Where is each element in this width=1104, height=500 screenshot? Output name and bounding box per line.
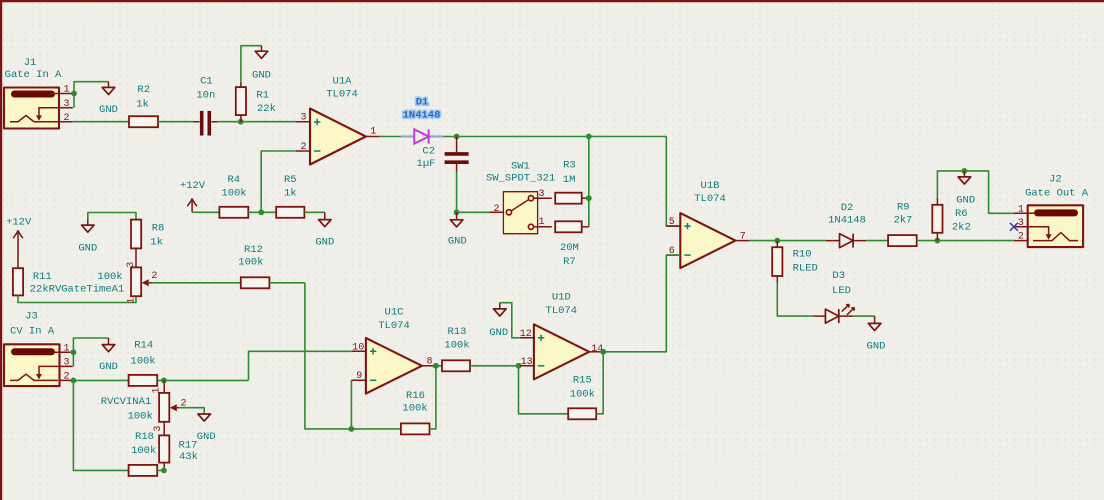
connector J3 CV In A bbox=[4, 311, 73, 386]
resistor R17 43k bbox=[159, 435, 198, 470]
svg-text:+12V: +12V bbox=[180, 180, 206, 192]
svg-text:R12: R12 bbox=[244, 244, 263, 256]
svg-text:8: 8 bbox=[426, 356, 432, 367]
svg-text:2: 2 bbox=[63, 372, 69, 383]
potentiometer RVCVINA1 100k bbox=[101, 380, 187, 435]
svg-text:LED: LED bbox=[832, 285, 851, 297]
svg-text:GND: GND bbox=[252, 69, 271, 81]
svg-text:GND: GND bbox=[867, 340, 886, 352]
svg-text:22kRVGateTimeA1: 22kRVGateTimeA1 bbox=[30, 284, 125, 296]
junction C2/GND/SW node bbox=[454, 209, 460, 215]
junction U1B out / R10 bbox=[774, 238, 780, 244]
svg-text:Gate In A: Gate In A bbox=[5, 69, 62, 81]
svg-text:1: 1 bbox=[1018, 204, 1024, 215]
wire U1B out to D2 bbox=[749, 240, 826, 242]
ground symbol at R6 bbox=[956, 171, 975, 207]
svg-text:R8: R8 bbox=[152, 223, 165, 235]
svg-text:GND: GND bbox=[197, 431, 216, 443]
svg-text:GND: GND bbox=[956, 194, 975, 206]
resistor R13 100k bbox=[442, 326, 470, 371]
wire R16 up to U1C out bbox=[430, 366, 436, 429]
wire R4 to R5 bbox=[248, 211, 276, 213]
svg-text:RVCVINA1: RVCVINA1 bbox=[101, 396, 151, 408]
svg-text:1: 1 bbox=[538, 217, 544, 228]
wire R6 top to GND and J2 pin1 bbox=[937, 171, 1014, 213]
svg-text:1k: 1k bbox=[136, 98, 149, 110]
resistor R10 RLED bbox=[772, 241, 818, 283]
junction pin9/R16 row bbox=[349, 426, 355, 432]
wire U1D feedback R15 bbox=[519, 366, 569, 414]
svg-text:1N4148: 1N4148 bbox=[828, 215, 866, 227]
svg-text:GND: GND bbox=[99, 104, 118, 116]
svg-text:R6: R6 bbox=[955, 208, 968, 220]
svg-text:3: 3 bbox=[126, 262, 137, 268]
svg-text:2k7: 2k7 bbox=[893, 215, 912, 227]
junction U1C out / R16 bbox=[433, 363, 439, 369]
svg-text:43k: 43k bbox=[179, 451, 198, 463]
op-amp U1D TL074 bbox=[520, 292, 603, 380]
resistor R9 2k7 bbox=[888, 202, 917, 246]
ground symbol at D3 bbox=[867, 316, 886, 352]
svg-text:D3: D3 bbox=[832, 270, 845, 282]
ground symbol at J1 bbox=[99, 82, 118, 116]
svg-text:100k: 100k bbox=[128, 410, 153, 422]
wire C1 to U1A pin3 bbox=[218, 121, 296, 123]
svg-text:22k: 22k bbox=[257, 103, 276, 115]
svg-text:1M: 1M bbox=[563, 174, 576, 186]
no-connect X on J2 pin3 bbox=[1010, 223, 1018, 231]
junction R3 riser top bbox=[586, 134, 592, 140]
svg-text:R18: R18 bbox=[135, 431, 154, 443]
svg-text:C1: C1 bbox=[200, 75, 213, 87]
svg-text:SW1: SW1 bbox=[511, 161, 530, 173]
sheet border left bbox=[0, 0, 2, 500]
wire R10 to D3 bbox=[777, 283, 814, 316]
svg-text:1µF: 1µF bbox=[417, 158, 436, 170]
resistor R5 1k bbox=[276, 174, 304, 218]
wire J1 pin2 to R2 bbox=[73, 121, 129, 123]
svg-text:R2: R2 bbox=[137, 84, 150, 96]
wire U1A pin2 from R4/R5 node bbox=[261, 151, 296, 212]
svg-text:TL074: TL074 bbox=[694, 193, 726, 205]
wire R5 to GND bbox=[304, 211, 324, 213]
wire R9 to J2 pin2 bbox=[917, 240, 1014, 242]
wire J3 pin2 to R14 bbox=[73, 379, 129, 381]
diode D1 1N4148 (selected) bbox=[401, 97, 443, 144]
svg-text:1: 1 bbox=[63, 85, 69, 96]
potentiometer RVGateTimeA1 100k bbox=[97, 262, 157, 304]
svg-text:100k: 100k bbox=[570, 389, 595, 401]
svg-text:R7: R7 bbox=[563, 256, 576, 268]
junction R3/R7 node bbox=[586, 195, 592, 201]
ground symbol at U1D pin12 bbox=[489, 303, 520, 339]
sheet border top bbox=[0, 0, 1104, 2]
junction C1/R1 node bbox=[238, 119, 244, 125]
ground symbol right of R5 bbox=[315, 212, 334, 248]
svg-text:R13: R13 bbox=[448, 326, 467, 338]
junction R14/pot node bbox=[161, 378, 167, 384]
resistor R14 100k bbox=[129, 340, 158, 386]
ground symbol left of R8 bbox=[78, 213, 136, 255]
power +12V at R4 bbox=[180, 180, 206, 212]
wire pot wiper to R12 bbox=[152, 282, 241, 284]
junction R6 GND node bbox=[962, 168, 968, 174]
svg-text:+12V: +12V bbox=[6, 217, 32, 229]
svg-text:GND: GND bbox=[489, 327, 508, 339]
wire C2 to SW1 pin2 and GND bbox=[457, 172, 490, 212]
svg-text:1: 1 bbox=[152, 387, 163, 393]
junction J3 pin1 bbox=[71, 349, 77, 355]
svg-text:D2: D2 bbox=[841, 202, 854, 214]
op-amp U1A TL074 bbox=[296, 75, 380, 164]
svg-text:R1: R1 bbox=[256, 90, 269, 102]
svg-text:U1D: U1D bbox=[552, 292, 571, 304]
resistor R7 20M bbox=[555, 221, 589, 268]
wire R1 top to GND bbox=[241, 46, 262, 82]
svg-text:5: 5 bbox=[669, 217, 675, 228]
wire R15 up to U1D out bbox=[596, 352, 603, 414]
svg-text:CV In A: CV In A bbox=[10, 326, 55, 338]
svg-text:1k: 1k bbox=[150, 237, 163, 249]
resistor R2 1k bbox=[129, 84, 158, 127]
op-amp U1B TL074 bbox=[666, 180, 749, 268]
svg-text:12: 12 bbox=[520, 329, 532, 340]
svg-text:R11: R11 bbox=[33, 271, 52, 283]
svg-text:100k: 100k bbox=[402, 403, 427, 415]
svg-text:3: 3 bbox=[300, 113, 306, 124]
svg-text:1: 1 bbox=[63, 343, 69, 354]
svg-text:10n: 10n bbox=[196, 90, 215, 102]
svg-text:1: 1 bbox=[370, 127, 376, 138]
svg-text:7: 7 bbox=[740, 231, 746, 242]
svg-text:100k: 100k bbox=[130, 355, 155, 367]
svg-text:2: 2 bbox=[300, 142, 306, 153]
svg-text:R16: R16 bbox=[406, 390, 425, 402]
ground symbol at RVCVINA1 bbox=[197, 414, 216, 443]
svg-text:GND: GND bbox=[315, 236, 334, 248]
svg-text:2: 2 bbox=[493, 204, 499, 215]
svg-text:R17: R17 bbox=[179, 439, 198, 451]
wire R2 to C1 bbox=[158, 121, 193, 123]
svg-text:D1: D1 bbox=[416, 97, 429, 109]
wire R14 to U1C pin10 riser bbox=[157, 379, 248, 381]
junction R4/R5 node bbox=[258, 209, 264, 215]
ground symbol at J3 bbox=[99, 338, 118, 373]
svg-text:R3: R3 bbox=[563, 160, 576, 172]
resistor R8 1k bbox=[131, 220, 164, 268]
capacitor C1 10n bbox=[193, 75, 218, 135]
svg-text:1: 1 bbox=[127, 298, 138, 304]
wire R12 right to drop bbox=[269, 282, 305, 284]
junction U1D pin13 / R15 bbox=[516, 363, 522, 369]
wire pot wiper to GND bbox=[179, 408, 204, 414]
svg-text:2: 2 bbox=[63, 113, 69, 124]
resistor R1 22k bbox=[236, 82, 276, 122]
svg-text:R5: R5 bbox=[284, 174, 297, 186]
svg-text:3: 3 bbox=[63, 358, 69, 369]
svg-text:100k: 100k bbox=[221, 188, 246, 200]
svg-text:J2: J2 bbox=[1049, 173, 1062, 185]
svg-text:3: 3 bbox=[153, 426, 164, 432]
wire R11 bottom to pot pin1 bbox=[18, 295, 136, 302]
wire J3 pin1/pin3 to GND riser bbox=[73, 338, 108, 366]
svg-text:1k: 1k bbox=[284, 188, 297, 200]
svg-text:R4: R4 bbox=[227, 174, 240, 186]
wire U1A out to D1 bbox=[380, 136, 401, 138]
capacitor C2 1uF bbox=[417, 137, 469, 172]
wire R18 to R17 node bbox=[157, 469, 164, 471]
resistor R4 100k bbox=[219, 174, 248, 218]
svg-text:1N4148: 1N4148 bbox=[403, 110, 441, 122]
wire U1C out to R13 bbox=[436, 365, 442, 367]
ground symbol above R1 bbox=[252, 46, 271, 82]
svg-text:2: 2 bbox=[151, 271, 157, 282]
junction D1/C2 node bbox=[454, 134, 460, 140]
svg-text:RLED: RLED bbox=[793, 263, 818, 275]
svg-text:J3: J3 bbox=[25, 311, 38, 323]
svg-text:U1A: U1A bbox=[333, 75, 353, 87]
connector J2 Gate Out A bbox=[1014, 173, 1089, 247]
svg-text:SW_SPDT_321: SW_SPDT_321 bbox=[486, 173, 555, 185]
resistor R18 100k bbox=[129, 431, 158, 476]
wire J1 pin1/pin3 to GND riser bbox=[74, 82, 109, 108]
switch SW1 SW_SPDT_321 bbox=[486, 161, 555, 234]
power +12V at R11 bbox=[6, 217, 32, 269]
svg-text:100k: 100k bbox=[97, 271, 122, 283]
wire U1C pin10 from J3/R14 node bbox=[249, 351, 352, 380]
wire D2 to R9 bbox=[866, 240, 888, 242]
resistor R6 2k2 bbox=[932, 198, 970, 241]
svg-text:2k2: 2k2 bbox=[952, 222, 971, 234]
wire R13 to U1D pin13 bbox=[470, 365, 520, 367]
junction U1D out bbox=[600, 349, 606, 355]
svg-text:3: 3 bbox=[1018, 218, 1024, 229]
junction R17/R18 node bbox=[161, 468, 167, 474]
svg-text:9: 9 bbox=[356, 371, 362, 382]
wire R12 drop to R16 row bbox=[305, 283, 401, 429]
junction R9/R6 node bbox=[935, 238, 941, 244]
wire U1C pin9 down to R16 row bbox=[350, 380, 353, 429]
ground symbol below C2 bbox=[448, 212, 467, 247]
wire R3 node riser bbox=[588, 137, 590, 227]
op-amp U1C TL074 bbox=[352, 307, 436, 394]
connector J1 Gate In A bbox=[4, 57, 73, 129]
resistor R15 100k bbox=[568, 375, 596, 420]
wire +12V to R4 bbox=[192, 211, 219, 213]
wire D3 to GND bbox=[853, 315, 875, 317]
junction J3 pin2 bbox=[71, 378, 77, 384]
svg-text:TL074: TL074 bbox=[546, 305, 578, 317]
svg-text:R14: R14 bbox=[134, 340, 153, 352]
svg-text:TL074: TL074 bbox=[378, 320, 410, 332]
svg-text:J1: J1 bbox=[24, 57, 37, 69]
resistor R3 1M bbox=[555, 160, 589, 204]
svg-text:GND: GND bbox=[448, 236, 467, 248]
svg-text:TL074: TL074 bbox=[326, 89, 358, 101]
resistor R11 22k bbox=[13, 268, 124, 296]
LED D3 bbox=[814, 270, 855, 323]
svg-text:13: 13 bbox=[521, 357, 533, 368]
svg-text:U1C: U1C bbox=[385, 307, 404, 319]
resistor R16 100k bbox=[401, 390, 430, 434]
svg-text:20M: 20M bbox=[560, 242, 579, 254]
svg-text:R15: R15 bbox=[573, 375, 592, 387]
svg-text:R10: R10 bbox=[793, 248, 812, 260]
svg-text:100k: 100k bbox=[444, 340, 469, 352]
svg-text:10: 10 bbox=[352, 342, 364, 353]
svg-text:R9: R9 bbox=[897, 202, 910, 214]
resistor R12 100k bbox=[238, 244, 269, 288]
svg-text:3: 3 bbox=[538, 189, 544, 200]
wire U1B pin6 from U1D out bbox=[603, 255, 680, 352]
svg-text:3: 3 bbox=[63, 99, 69, 110]
diode D2 1N4148 bbox=[826, 202, 866, 247]
svg-text:2: 2 bbox=[1018, 232, 1024, 243]
svg-text:U1B: U1B bbox=[701, 180, 720, 192]
svg-text:100k: 100k bbox=[131, 445, 156, 457]
svg-text:C2: C2 bbox=[422, 146, 435, 158]
svg-text:Gate Out A: Gate Out A bbox=[1025, 188, 1089, 200]
junction J1 pin1 bbox=[71, 91, 77, 97]
svg-text:GND: GND bbox=[78, 243, 97, 255]
wire J3 pin2 down to R18 bbox=[73, 380, 128, 470]
svg-text:100k: 100k bbox=[238, 257, 263, 269]
wire D1 to U1B pin5 bbox=[443, 137, 680, 227]
svg-text:GND: GND bbox=[99, 361, 118, 373]
